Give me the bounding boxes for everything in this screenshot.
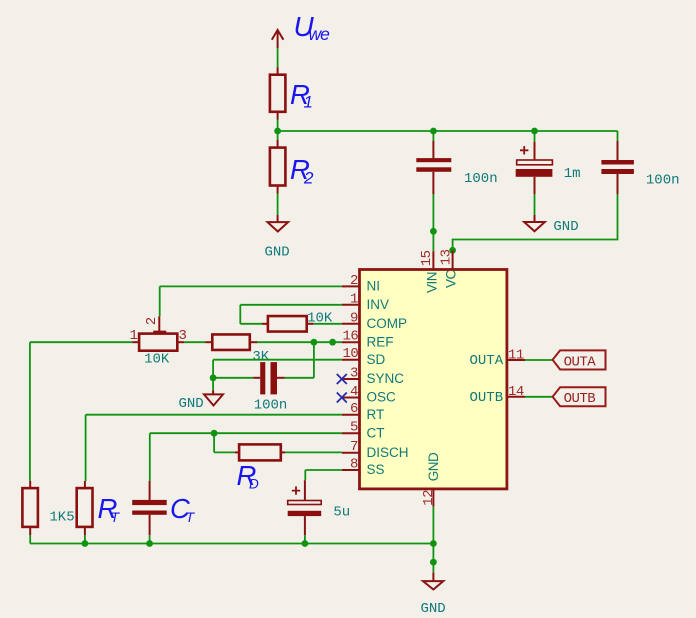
svg-text:GND: GND [179, 396, 204, 412]
svg-text:5u: 5u [333, 505, 350, 521]
IC U1 body [360, 270, 507, 489]
svg-text:5: 5 [350, 420, 358, 436]
svg-text:2: 2 [144, 317, 160, 325]
resistor R6 1K5 [22, 481, 38, 535]
resistor R4 10K [262, 316, 314, 332]
wire RT net horizontal [86, 414, 342, 416]
junction rail/C2 [531, 128, 538, 135]
ground bottom [423, 573, 443, 590]
wire left rail down to 1K5 [29, 342, 31, 481]
svg-text:OUTB: OUTB [564, 391, 596, 407]
svg-text:1: 1 [350, 291, 358, 307]
wire C5 to bottom rail [304, 535, 306, 543]
wire corner to RD [214, 451, 235, 453]
pin 4 OSC stub [342, 397, 360, 399]
svg-text:10: 10 [343, 346, 359, 362]
wire RD to DISCH [285, 451, 342, 453]
svg-text:OUTB: OUTB [470, 390, 504, 406]
capacitor C3 100n [601, 131, 634, 194]
junction on VIN wire [430, 228, 437, 235]
svg-text:RT: RT [367, 407, 385, 422]
svg-text:1: 1 [304, 93, 313, 112]
wire R1 to rail [277, 120, 279, 132]
svg-text:11: 11 [508, 347, 524, 363]
wire NI net vertical to wiper [159, 286, 161, 316]
label R_T [98, 493, 121, 525]
junction rail/R1/R2 [274, 128, 281, 135]
wire IC GND pin down [432, 507, 434, 562]
wire SS down to C5 [304, 470, 306, 480]
svg-text:100n: 100n [254, 398, 288, 414]
pin 5 CT stub [342, 432, 360, 434]
wire R_T to bottom rail [84, 535, 86, 544]
svg-text:100n: 100n [646, 173, 680, 189]
label R2 [290, 154, 314, 188]
junction REF at pin [329, 339, 336, 346]
wire pot pin3 to R3 [184, 341, 205, 343]
wire INV corner to R4 [240, 323, 262, 325]
wire bottom rail [30, 543, 434, 545]
junction CT/RD [211, 430, 218, 437]
svg-text:13: 13 [438, 249, 454, 265]
pin 11 OUTA stub [507, 359, 525, 361]
svg-text:SD: SD [367, 352, 386, 367]
junction GND/bottom rail [430, 540, 437, 547]
svg-text:T: T [186, 509, 196, 525]
wire OUTA [525, 359, 553, 361]
wire REF branch down to C4 [313, 342, 315, 378]
svg-text:OUTA: OUTA [470, 353, 504, 369]
svg-text:CT: CT [367, 425, 385, 440]
svg-text:D: D [249, 477, 259, 492]
pin 12 GND stub [432, 489, 434, 507]
wire C3 to VC pin [453, 194, 618, 250]
label C_T [170, 493, 196, 525]
pin 16 REF stub [342, 341, 360, 343]
svg-text:REF: REF [367, 334, 394, 349]
pin 9 COMP stub [342, 323, 360, 325]
wire top rail [278, 130, 618, 132]
svg-text:1m: 1m [564, 166, 581, 182]
svg-text:OSC: OSC [367, 390, 397, 405]
pin 15 VIN stub [432, 251, 434, 269]
junction CT/bottom rail [146, 540, 153, 547]
svg-text:SS: SS [367, 462, 385, 477]
svg-text:NI: NI [367, 279, 381, 294]
label R1 [290, 79, 313, 112]
svg-text:10K: 10K [144, 351, 170, 367]
wire C2 to GND [534, 194, 536, 215]
ground near C4 [204, 391, 223, 406]
no-connect X pin 4 [337, 393, 347, 403]
svg-text:12: 12 [421, 490, 437, 506]
svg-text:GND: GND [426, 452, 441, 481]
ground below C2 [524, 215, 545, 231]
wire SD net horizontal [213, 359, 342, 361]
svg-text:VC: VC [444, 269, 459, 288]
svg-text:4: 4 [350, 384, 358, 400]
svg-text:GND: GND [553, 219, 578, 235]
wire SD down to gnd junction [212, 360, 214, 378]
wire CT down to RD [213, 433, 215, 452]
ground below R2 [268, 215, 289, 232]
wire C1 to VIN pin [432, 194, 434, 251]
wire NI net horizontal [160, 285, 342, 287]
pin 13 VC stub [452, 250, 454, 269]
pin 2 NI stub [342, 285, 360, 287]
svg-text:T: T [111, 509, 121, 525]
wire CT net horizontal [150, 432, 342, 434]
svg-text:3: 3 [350, 366, 358, 382]
junction C5/bottom rail [302, 540, 309, 547]
wire Uwe to R1 [277, 48, 279, 67]
junction rail/C1 [430, 128, 437, 135]
wire C_T to bottom rail [149, 535, 151, 543]
svg-text:COMP: COMP [367, 316, 408, 331]
wire R2 to GND [277, 194, 279, 216]
junction RT/bottom rail [82, 540, 89, 547]
svg-text:OUTA: OUTA [564, 354, 597, 370]
wire junction to C4 left [213, 377, 253, 379]
svg-text:9: 9 [350, 310, 358, 326]
svg-text:DISCH: DISCH [367, 445, 409, 460]
wire pot pin1 to left rail [30, 341, 133, 343]
svg-text:SYNC: SYNC [367, 371, 405, 386]
svg-text:2: 2 [350, 273, 358, 289]
capacitor C6 C_T [132, 481, 167, 535]
svg-text:VIN: VIN [425, 272, 440, 293]
wire SS net horizontal [305, 469, 342, 471]
resistor R7 RT [77, 481, 93, 535]
pin 8 SS stub [342, 469, 360, 471]
wire to bottom ground [432, 562, 434, 573]
wire 1K5 to bottom rail [29, 535, 31, 544]
wire R3 to REF pin [257, 341, 342, 343]
label RD [237, 460, 260, 492]
svg-text:INV: INV [367, 297, 390, 312]
svg-text:we: we [309, 24, 331, 44]
capacitor C4 100n [253, 362, 284, 394]
svg-text:7: 7 [350, 439, 358, 455]
junction GND stem [430, 559, 437, 566]
capacitor C1 100n [416, 131, 451, 194]
resistor R2 [270, 140, 286, 194]
svg-text:16: 16 [343, 329, 359, 345]
svg-text:6: 6 [350, 401, 358, 417]
no-connect X pin 3 [337, 374, 347, 384]
pin 14 OUTB stub [507, 396, 525, 398]
wire RT down to R_T [85, 415, 87, 481]
junction at VC pin [449, 247, 456, 254]
label U_we [294, 11, 331, 44]
pin 7 DISCH stub [342, 452, 360, 454]
wire rail to R2 [277, 131, 279, 141]
junction REF branch [311, 339, 318, 346]
junction SD/C4/GND [210, 374, 217, 381]
pin 6 RT stub [342, 414, 360, 416]
svg-text:100n: 100n [464, 171, 498, 187]
svg-text:1K5: 1K5 [49, 510, 74, 526]
potentiometer RV1 10K [133, 316, 185, 351]
global label OUTB [553, 387, 606, 407]
global label OUTA [553, 350, 606, 370]
resistor R5 RD [235, 444, 285, 460]
wire OUTB [525, 396, 553, 398]
svg-text:GND: GND [265, 245, 290, 261]
power flag U_we [272, 30, 284, 48]
wire junction down to ground [212, 378, 214, 391]
svg-text:GND: GND [421, 601, 446, 613]
capacitor C2 1m polarized [516, 131, 553, 194]
svg-text:15: 15 [419, 250, 435, 266]
wire CT net down to C_T [149, 433, 151, 481]
svg-text:2: 2 [303, 169, 314, 188]
wire INV down to R4 [239, 305, 241, 324]
pin 3 SYNC stub [342, 378, 360, 380]
resistor R1 [270, 68, 286, 120]
pin 10 SD stub [342, 359, 360, 361]
capacitor C5 5u polarized [288, 480, 322, 535]
svg-text:14: 14 [508, 384, 524, 400]
wire C4 right to REF branch [285, 377, 314, 379]
svg-text:8: 8 [350, 457, 358, 473]
resistor R3 3K [206, 334, 258, 350]
pin 1 INV stub [342, 304, 360, 306]
wire R4 to COMP [314, 323, 342, 325]
wire INV net horizontal [240, 304, 341, 306]
